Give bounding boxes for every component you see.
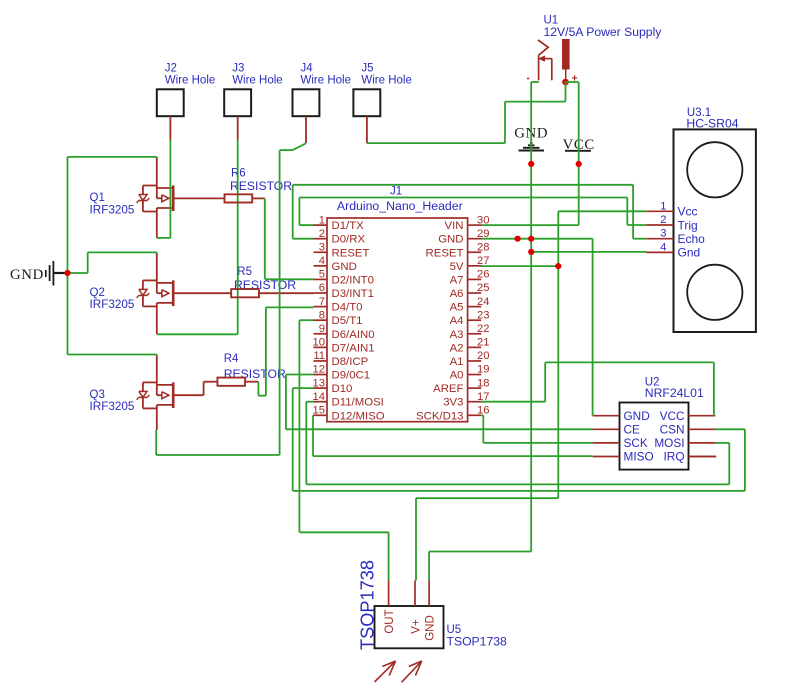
svg-text:A0: A0 <box>450 370 464 382</box>
svg-text:3: 3 <box>660 228 666 240</box>
svg-text:GND: GND <box>624 409 650 423</box>
svg-text:CSN: CSN <box>660 423 685 437</box>
svg-text:A5: A5 <box>450 302 464 314</box>
svg-text:1: 1 <box>660 200 666 212</box>
svg-text:J2: J2 <box>165 63 177 75</box>
svg-text:RESISTOR: RESISTOR <box>230 179 292 193</box>
svg-text:D8/ICP: D8/ICP <box>332 356 369 368</box>
svg-text:SCK: SCK <box>624 436 648 450</box>
svg-text:V+: V+ <box>411 619 423 634</box>
svg-text:10: 10 <box>313 337 325 349</box>
svg-text:IRQ: IRQ <box>664 450 685 464</box>
svg-text:2: 2 <box>319 228 325 240</box>
svg-text:15: 15 <box>313 404 325 416</box>
svg-text:23: 23 <box>477 309 489 321</box>
svg-text:Wire Hole: Wire Hole <box>232 75 282 87</box>
svg-text:TSOP1738: TSOP1738 <box>358 560 378 650</box>
svg-text:A4: A4 <box>450 315 464 327</box>
svg-text:4: 4 <box>319 255 325 267</box>
svg-text:Echo: Echo <box>678 232 706 246</box>
svg-text:GND: GND <box>332 261 357 273</box>
svg-text:D9/0C1: D9/0C1 <box>332 370 371 382</box>
svg-text:TSOP1738: TSOP1738 <box>447 635 508 649</box>
svg-text:RESET: RESET <box>332 247 370 259</box>
svg-text:8: 8 <box>319 309 325 321</box>
svg-text:7: 7 <box>319 296 325 308</box>
svg-text:NRF24L01: NRF24L01 <box>645 386 704 400</box>
svg-text:2: 2 <box>660 214 666 226</box>
svg-text:D12/MISO: D12/MISO <box>332 410 385 422</box>
svg-text:OUT: OUT <box>384 609 396 633</box>
svg-text:20: 20 <box>477 350 489 362</box>
svg-text:D11/MOSI: D11/MOSI <box>332 397 384 409</box>
svg-text:14: 14 <box>313 391 325 403</box>
svg-text:13: 13 <box>313 377 325 389</box>
svg-text:12V/5A Power Supply: 12V/5A Power Supply <box>544 25 663 39</box>
svg-text:Q1: Q1 <box>90 192 105 204</box>
svg-text:Wire Hole: Wire Hole <box>301 75 351 87</box>
svg-text:21: 21 <box>477 337 489 349</box>
svg-text:11: 11 <box>313 350 325 362</box>
svg-text:12: 12 <box>313 364 325 376</box>
svg-text:D1/TX: D1/TX <box>332 220 365 232</box>
svg-text:MISO: MISO <box>624 450 654 464</box>
svg-text:D0/RX: D0/RX <box>332 234 366 246</box>
svg-text:5V: 5V <box>450 261 464 273</box>
svg-text:J4: J4 <box>301 63 314 75</box>
svg-text:Vcc: Vcc <box>678 205 698 219</box>
svg-text:A1: A1 <box>450 356 464 368</box>
svg-text:AREF: AREF <box>433 383 463 395</box>
svg-text:HC-SR04: HC-SR04 <box>686 117 738 131</box>
svg-text:Wire Hole: Wire Hole <box>361 75 411 87</box>
svg-text:26: 26 <box>477 269 489 281</box>
svg-text:A2: A2 <box>450 342 464 354</box>
svg-text:Trig: Trig <box>678 218 698 232</box>
svg-text:1: 1 <box>319 214 325 226</box>
svg-text:VCC: VCC <box>660 409 685 423</box>
svg-text:J3: J3 <box>232 63 244 75</box>
svg-text:3V3: 3V3 <box>443 397 463 409</box>
svg-text:Gnd: Gnd <box>678 246 701 260</box>
svg-text:IRF3205: IRF3205 <box>90 400 135 413</box>
svg-text:D6/AIN0: D6/AIN0 <box>332 329 375 341</box>
svg-text:4: 4 <box>660 241 666 253</box>
svg-text:D4/T0: D4/T0 <box>332 302 363 314</box>
svg-text:IRF3205: IRF3205 <box>90 298 135 311</box>
svg-text:GND: GND <box>10 267 44 283</box>
svg-text:CE: CE <box>624 423 641 437</box>
svg-text:24: 24 <box>477 296 489 308</box>
svg-text:J5: J5 <box>361 63 373 75</box>
svg-text:GND: GND <box>438 234 463 246</box>
svg-text:SCK/D13: SCK/D13 <box>416 410 463 422</box>
svg-text:5: 5 <box>319 269 325 281</box>
svg-text:Q2: Q2 <box>90 287 105 299</box>
svg-text:D5/T1: D5/T1 <box>332 315 363 327</box>
svg-text:28: 28 <box>477 241 489 253</box>
svg-text:RESISTOR: RESISTOR <box>234 278 296 292</box>
svg-text:22: 22 <box>477 323 489 335</box>
svg-text:R5: R5 <box>237 266 252 278</box>
svg-text:25: 25 <box>477 282 489 294</box>
svg-text:IRF3205: IRF3205 <box>90 203 135 216</box>
svg-text:D3/INT1: D3/INT1 <box>332 288 374 300</box>
svg-text:Arduino_Nano_Header: Arduino_Nano_Header <box>337 199 463 213</box>
svg-text:Q3: Q3 <box>90 389 105 401</box>
svg-text:RESISTOR: RESISTOR <box>224 367 286 381</box>
svg-text:VIN: VIN <box>445 220 464 232</box>
svg-text:3: 3 <box>319 241 325 253</box>
svg-text:A3: A3 <box>450 329 464 341</box>
svg-text:A7: A7 <box>450 274 464 286</box>
svg-text:A6: A6 <box>450 288 464 300</box>
svg-text:D7/AIN1: D7/AIN1 <box>332 342 375 354</box>
svg-text:MOSI: MOSI <box>654 436 684 450</box>
svg-text:J1: J1 <box>390 186 402 198</box>
svg-text:RESET: RESET <box>426 247 464 259</box>
svg-text:R4: R4 <box>224 353 239 365</box>
svg-text:Wire Hole: Wire Hole <box>165 75 215 87</box>
svg-text:D2/INT0: D2/INT0 <box>332 274 374 286</box>
svg-text:D10: D10 <box>332 383 353 395</box>
svg-text:GND: GND <box>425 615 437 641</box>
svg-text:18: 18 <box>477 377 489 389</box>
svg-text:6: 6 <box>319 282 325 294</box>
svg-text:19: 19 <box>477 364 489 376</box>
svg-text:9: 9 <box>319 323 325 335</box>
